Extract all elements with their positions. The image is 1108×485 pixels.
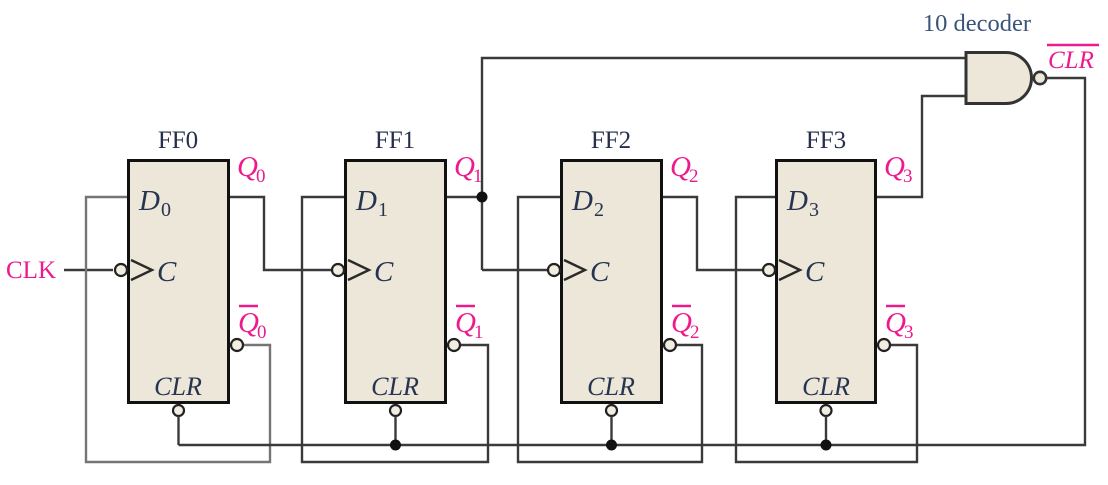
label CLR pin FF1: [371, 372, 419, 401]
svg-text:Q: Q: [671, 307, 692, 339]
Q1-bar bubble FF1: [448, 339, 460, 351]
svg-text:3: 3: [904, 322, 914, 343]
CLR bubble FF2: [606, 405, 617, 416]
junction node CLR FF3: [821, 440, 832, 451]
label FF2: [591, 127, 631, 154]
wire CLK to FF0 clock: [64, 269, 113, 271]
flip-flop FF0 box: [129, 161, 229, 403]
svg-text:10 decoder: 10 decoder: [923, 10, 1031, 37]
svg-text:C: C: [374, 256, 394, 288]
Q0-bar bubble FF0: [231, 339, 243, 351]
label C pin FF3: [805, 256, 825, 288]
label Q1: [454, 151, 483, 187]
clock bubble FF1: [332, 264, 344, 276]
label Q0-bar: [238, 306, 267, 343]
label FF0: [158, 127, 198, 154]
wire Q1 out: [447, 196, 482, 198]
svg-text:CLR: CLR: [802, 372, 850, 401]
label C pin FF1: [374, 256, 394, 288]
svg-text:Q: Q: [238, 307, 259, 339]
svg-text:D: D: [571, 185, 593, 217]
clock triangle FF0: [131, 260, 152, 280]
label Q3: [884, 151, 913, 187]
svg-text:C: C: [590, 256, 610, 288]
NAND gate U1: [966, 53, 1032, 104]
svg-text:D: D: [355, 185, 377, 217]
wire Q2 to FF3 clock: [663, 197, 763, 270]
svg-text:3: 3: [903, 166, 913, 187]
svg-text:Q: Q: [454, 151, 475, 183]
wire NAND output to CLR bus: [179, 78, 1086, 445]
wire FF1 CLR pin to bus: [394, 416, 396, 445]
Q3-bar bubble FF3: [878, 339, 890, 351]
svg-text:FF0: FF0: [158, 127, 198, 154]
svg-text:3: 3: [809, 199, 819, 221]
wire FF0 CLR pin to bus: [177, 416, 179, 445]
svg-text:CLK: CLK: [6, 257, 56, 284]
junction node CLR FF1: [390, 440, 401, 451]
svg-text:D: D: [786, 185, 808, 217]
label D3 pin: [786, 185, 819, 221]
svg-text:Q: Q: [670, 151, 691, 183]
svg-text:FF2: FF2: [591, 127, 631, 154]
flip-flop FF1 box: [346, 161, 446, 403]
label CLR-bar output: [1047, 45, 1099, 74]
svg-text:Q: Q: [884, 151, 905, 183]
svg-text:1: 1: [378, 199, 388, 221]
wire FF2 CLR pin to bus: [610, 416, 612, 445]
wire Q1-bar feedback loop to D1: [302, 197, 488, 462]
CLR bubble FF0: [173, 405, 184, 416]
clock triangle FF2: [564, 260, 585, 280]
svg-text:CLR: CLR: [1048, 47, 1094, 74]
label Q0: [237, 151, 266, 187]
label CLR pin FF0: [154, 372, 202, 401]
label FF1: [375, 127, 415, 154]
NAND output bubble: [1034, 72, 1046, 84]
wire Q2-bar feedback loop to D2: [518, 197, 702, 462]
svg-text:CLR: CLR: [154, 372, 202, 401]
svg-text:2: 2: [690, 322, 700, 343]
svg-text:Q: Q: [455, 307, 476, 339]
svg-text:FF3: FF3: [806, 127, 846, 154]
label D1 pin: [355, 185, 388, 221]
label Q3-bar: [885, 306, 914, 343]
svg-text:D: D: [138, 185, 160, 217]
svg-text:1: 1: [474, 322, 484, 343]
junction node Q1: [477, 192, 488, 203]
label CLR pin FF3: [802, 372, 850, 401]
label Q2-bar: [671, 306, 700, 343]
svg-text:0: 0: [257, 322, 267, 343]
svg-text:Q: Q: [237, 151, 258, 183]
svg-text:2: 2: [594, 199, 604, 221]
label Q2: [670, 151, 699, 187]
clock bubble FF3: [763, 264, 775, 276]
svg-text:CLR: CLR: [587, 372, 635, 401]
wire FF3 CLR pin to bus: [825, 416, 827, 445]
label FF3: [806, 127, 846, 154]
label CLK input: [6, 257, 56, 284]
wire Q3-bar feedback loop to D3: [736, 197, 917, 462]
svg-text:Q: Q: [885, 307, 906, 339]
CLR bubble FF1: [390, 405, 401, 416]
label C pin FF2: [590, 256, 610, 288]
wire Q0-bar feedback loop to D0 (grey): [86, 197, 270, 462]
svg-text:FF1: FF1: [375, 127, 415, 154]
wire Q1 rail to NAND top input: [482, 58, 966, 270]
svg-text:C: C: [805, 256, 825, 288]
label CLR pin FF2: [587, 372, 635, 401]
wire Q3 to NAND bottom input: [877, 96, 966, 197]
svg-text:C: C: [157, 256, 177, 288]
svg-text:CLR: CLR: [371, 372, 419, 401]
clock bubble FF0: [115, 264, 127, 276]
svg-text:0: 0: [256, 166, 266, 187]
Q2-bar bubble FF2: [664, 339, 676, 351]
label Q1-bar: [455, 306, 484, 343]
wire Q0 to FF1 clock: [230, 197, 331, 270]
label C pin FF0: [157, 256, 177, 288]
clock triangle FF3: [779, 260, 800, 280]
flip-flop FF2 box: [562, 161, 662, 403]
label D0 pin: [138, 185, 171, 221]
clock bubble FF2: [548, 264, 560, 276]
CLR bubble FF3: [821, 405, 832, 416]
junction node CLR FF2: [606, 440, 617, 451]
flip-flop FF3 box: [777, 161, 876, 403]
svg-text:2: 2: [689, 166, 699, 187]
label D2 pin: [571, 185, 604, 221]
label 10 decoder: [923, 10, 1031, 37]
wire Q1 down to FF2 clock: [482, 269, 548, 271]
svg-text:0: 0: [161, 199, 171, 221]
clock triangle FF1: [348, 260, 369, 280]
